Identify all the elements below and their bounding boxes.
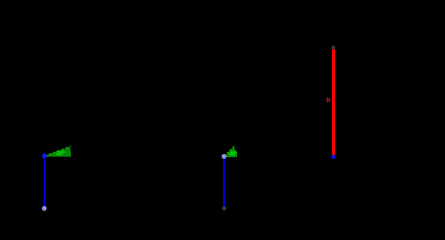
- svg-text:45°: 45°: [229, 152, 237, 158]
- point top of h (dark gray): [332, 45, 336, 49]
- sector A solid edges (bottom + arc): [45, 147, 71, 156]
- sector B solid edges (bottom + arc): [224, 148, 237, 157]
- segment h (red vertical): [332, 49, 335, 155]
- point A bottom (light periwinkle): [42, 206, 47, 211]
- segment A (left blue vertical): [44, 156, 46, 208]
- svg-text:20°: 20°: [56, 151, 64, 157]
- angle sector A (20 deg): [45, 147, 71, 156]
- point B top (light periwinkle): [222, 154, 227, 159]
- segment B (middle blue vertical): [223, 157, 225, 209]
- point B bottom (dark gray): [222, 206, 226, 210]
- sector A dashed hypotenuse ray: [45, 146, 71, 156]
- point A top (blue): [42, 154, 47, 159]
- point bottom of h (blue): [331, 155, 335, 159]
- angle sector B (45 deg): [224, 148, 237, 157]
- svg-text:h: h: [327, 98, 331, 104]
- sector B dashed hypotenuse ray: [224, 146, 234, 156]
